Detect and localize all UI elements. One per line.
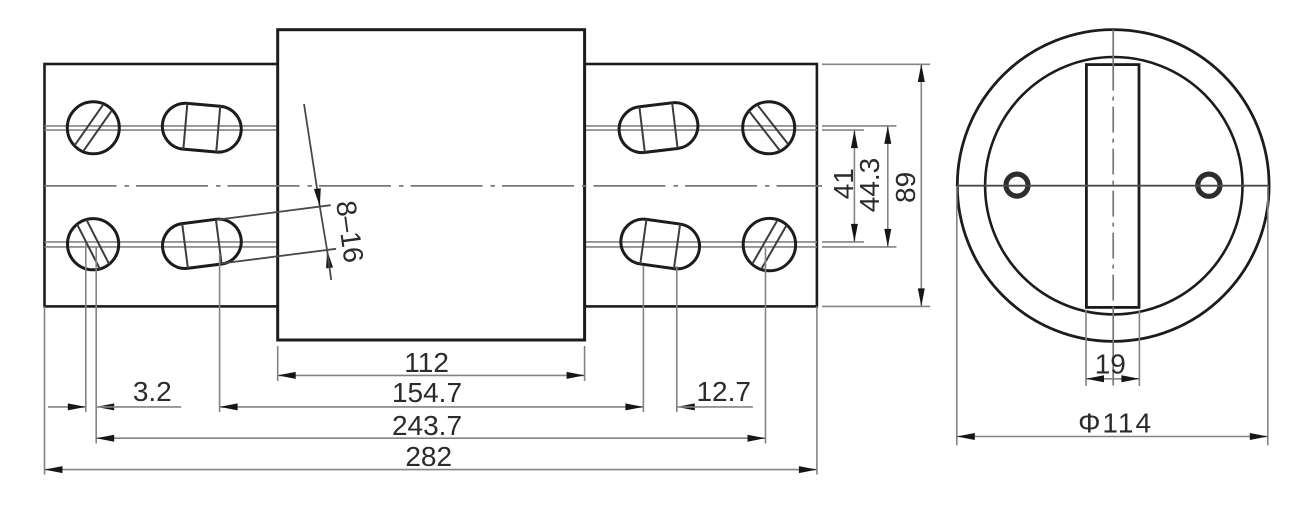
dim line 89 bbox=[920, 64, 922, 306]
ext circle right bbox=[1267, 186, 1269, 445]
dim line 154.7 bbox=[220, 406, 644, 408]
dim 3.2 right tail bbox=[96, 406, 181, 408]
arrow 44.3 bottom bbox=[884, 229, 891, 247]
ext 89 top bbox=[822, 63, 930, 65]
ext circle left bbox=[956, 186, 958, 445]
arrow 243.7 left bbox=[96, 435, 114, 442]
screw hole top-left bbox=[67, 102, 119, 154]
arrow 3.2 left bbox=[68, 403, 86, 410]
extension 41 bottom bbox=[822, 241, 864, 243]
vertical centerline top bbox=[1112, 30, 1114, 65]
vertical centerline bottom bbox=[1112, 307, 1114, 385]
center bar bbox=[1086, 65, 1139, 308]
ext slot tangent r1 bbox=[642, 266, 644, 412]
dim line 19 bbox=[1086, 378, 1139, 380]
slot edge extension upper bbox=[217, 205, 331, 220]
ext bar right bbox=[1138, 310, 1140, 386]
arrow 19 right bbox=[1121, 375, 1139, 382]
extension 44.3 top bbox=[822, 125, 896, 127]
svg-text:12.7: 12.7 bbox=[696, 376, 751, 407]
arrow 154.7 right bbox=[625, 403, 643, 410]
tail 8-16 bbox=[327, 250, 331, 280]
slot top-left bbox=[160, 101, 243, 154]
horizontal centerline bbox=[45, 185, 823, 187]
slot bottom-left bbox=[160, 216, 244, 271]
svg-text:Φ114: Φ114 bbox=[1078, 407, 1153, 438]
arrow 8-16 upper bbox=[314, 188, 321, 206]
arrow 3.2 right bbox=[96, 403, 114, 410]
dim line 243.7 bbox=[96, 437, 765, 439]
arrow 19 left bbox=[1086, 375, 1104, 382]
svg-text:154.7: 154.7 bbox=[392, 377, 462, 408]
arrow 89 top bbox=[918, 64, 925, 82]
arrow 44.3 top bbox=[884, 126, 891, 144]
leader line 8-16 bbox=[304, 104, 320, 207]
arrow 112 left bbox=[278, 372, 296, 379]
ext bar left bbox=[1085, 310, 1087, 386]
ext screw slot line a bbox=[85, 243, 87, 412]
body plate outline bbox=[45, 64, 817, 306]
bottom seam line lower bbox=[45, 246, 817, 248]
svg-text:112: 112 bbox=[404, 347, 449, 378]
dim line 44.3 bbox=[887, 126, 889, 247]
dim line 8-16 bbox=[320, 207, 327, 251]
screw hole bottom-right bbox=[743, 218, 795, 270]
arrow 8-16 lower bbox=[326, 250, 333, 268]
arrow 41 top bbox=[851, 130, 858, 148]
svg-text:89: 89 bbox=[890, 172, 921, 203]
arrow phi114 left bbox=[957, 433, 975, 440]
extension 41 top bbox=[822, 129, 864, 131]
arrow phi114 right bbox=[1250, 433, 1268, 440]
dim line 112 bbox=[278, 374, 585, 376]
slot bottom-right bbox=[618, 216, 702, 271]
inner circle bbox=[985, 57, 1242, 314]
arrow 243.7 right bbox=[748, 435, 766, 442]
arrow 89 bottom bbox=[918, 288, 925, 306]
ext body right edge bbox=[816, 306, 818, 474]
ext 89 bottom bbox=[822, 305, 930, 307]
arrow 12.7 bbox=[677, 403, 695, 410]
screw hole bottom-left bbox=[68, 219, 119, 270]
right pin hole bbox=[1198, 174, 1220, 196]
outer circle bbox=[957, 30, 1269, 342]
arrow 282 left bbox=[45, 466, 63, 473]
arrow 154.7 left bbox=[220, 403, 238, 410]
arrow 41 bottom bbox=[851, 224, 858, 242]
ext block right bbox=[584, 346, 586, 381]
svg-text:3.2: 3.2 bbox=[133, 376, 172, 407]
dim line phi114 bbox=[957, 436, 1268, 438]
ext screw slot line b bbox=[95, 247, 97, 444]
arrow 112 right bbox=[567, 372, 585, 379]
top seam line lower bbox=[45, 129, 817, 131]
svg-text:44.3: 44.3 bbox=[854, 158, 885, 213]
svg-text:19: 19 bbox=[1095, 348, 1126, 379]
svg-text:282: 282 bbox=[405, 441, 452, 472]
svg-text:243.7: 243.7 bbox=[392, 410, 462, 441]
horizontal centerline right view bbox=[957, 185, 1269, 187]
top seam line upper bbox=[45, 125, 817, 127]
dim 12.7 tail bbox=[677, 406, 753, 408]
ext block left bbox=[277, 346, 279, 381]
slot top-right bbox=[617, 100, 701, 155]
vertical centerline dashdot bbox=[1112, 65, 1114, 308]
ext slot tangent r2 bbox=[676, 266, 678, 412]
dim line 41 bbox=[853, 130, 855, 242]
central block outline bbox=[278, 30, 585, 340]
slot edge extension lower bbox=[222, 249, 336, 264]
extension 44.3 bottom bbox=[822, 246, 896, 248]
dim line 282 bbox=[45, 469, 817, 471]
arrow 282 right bbox=[799, 466, 817, 473]
dim 3.2 left tail bbox=[48, 406, 86, 408]
ext screw right bbox=[765, 248, 767, 444]
ext body left edge bbox=[44, 306, 46, 474]
screw hole top-right bbox=[743, 102, 795, 154]
bottom seam line upper bbox=[45, 241, 817, 243]
left pin hole bbox=[1006, 174, 1028, 196]
ext slot tangent left bbox=[219, 255, 221, 412]
